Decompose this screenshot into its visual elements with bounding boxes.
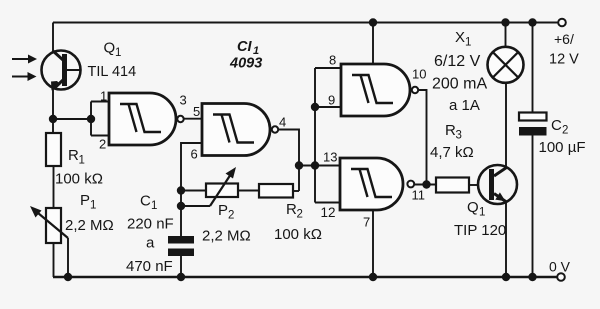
svg-text:13: 13	[323, 150, 337, 165]
svg-text:2,2 MΩ: 2,2 MΩ	[202, 228, 251, 245]
node riser pin13 link	[295, 161, 303, 169]
wire R3 to Q1 base	[469, 184, 479, 186]
svg-text:1: 1	[479, 207, 485, 219]
svg-text:R: R	[286, 201, 297, 218]
svg-text:X: X	[455, 29, 465, 46]
wire emitter to 0V rail	[505, 202, 507, 277]
svg-text:3: 3	[180, 93, 187, 108]
wire gate4 output to R3	[414, 184, 436, 186]
wire top supply rail	[53, 22, 558, 24]
node gate1 input bracket junction	[87, 115, 95, 123]
wire C1 to 0V rail	[180, 256, 182, 277]
svg-text:100 µF: 100 µF	[539, 139, 586, 156]
wire gate3 output down to gate4 output node	[418, 90, 426, 185]
capacitor C1	[168, 236, 194, 256]
node lamp on supply rail	[501, 18, 509, 26]
svg-text:P: P	[80, 192, 90, 209]
wire collector riser of Q1 TIL414	[52, 23, 54, 53]
wire gate1 output to gate2 pin5	[184, 118, 202, 120]
svg-text:9: 9	[328, 93, 335, 108]
svg-text:+6/: +6/	[554, 31, 574, 47]
wire gates3/4 input bus	[299, 68, 341, 203]
wire gate1 input bracket	[91, 102, 109, 136]
resistor R1	[46, 133, 61, 166]
node C2 on 0V rail	[528, 273, 536, 281]
node P2 top tap	[177, 186, 185, 194]
svg-text:C: C	[140, 193, 151, 210]
svg-text:1: 1	[90, 200, 96, 212]
node emitter junction	[49, 115, 57, 123]
resistor R3	[436, 178, 469, 193]
potentiometer P2	[206, 184, 238, 198]
wire gate2 output to R2/gate4	[278, 130, 299, 192]
svg-text:4,7 kΩ: 4,7 kΩ	[430, 144, 474, 161]
svg-text:7: 7	[363, 215, 370, 230]
node C2 on supply rail	[528, 18, 536, 26]
svg-text:220 nF: 220 nF	[127, 216, 174, 233]
terminal +supply	[558, 19, 566, 27]
wire R1 to P1	[53, 166, 55, 208]
wire pin7 VSS to 0V rail	[372, 210, 374, 277]
svg-text:Q: Q	[467, 199, 479, 216]
svg-text:R: R	[68, 147, 79, 164]
svg-text:2,2 MΩ: 2,2 MΩ	[65, 217, 114, 234]
svg-text:TIL 414: TIL 414	[88, 64, 137, 80]
wire C2 bottom to 0V rail	[532, 136, 534, 278]
svg-text:4093: 4093	[229, 56, 262, 72]
wire P1 bottom to 0V rail	[53, 243, 55, 277]
svg-text:6/12 V: 6/12 V	[434, 53, 481, 70]
svg-text:2: 2	[99, 137, 106, 152]
svg-text:1: 1	[100, 89, 107, 104]
wire P2 left lead	[181, 190, 206, 192]
potentiometer P1	[46, 208, 61, 243]
P2 wiper arrow	[210, 167, 236, 206]
svg-text:8: 8	[329, 53, 336, 68]
op-amp U1 gate G1 (4093 NAND a)	[109, 93, 184, 145]
lamp X1	[488, 47, 524, 83]
wire bottom 0V rail	[53, 276, 557, 278]
op-amp U1 gate G4 (4093 NAND d)	[340, 158, 414, 210]
wire emitter of Q1 down to node	[52, 89, 54, 134]
wire collector to lamp	[505, 83, 507, 168]
node outputs 10/11 join	[422, 180, 430, 188]
node P1 wiper on rail	[64, 273, 72, 281]
svg-text:1: 1	[115, 47, 121, 59]
svg-text:6: 6	[191, 147, 198, 162]
light arrow lower	[12, 72, 37, 81]
wire R2 right to riser	[293, 190, 299, 192]
wire P2 to R2	[238, 190, 259, 192]
wire pin14 VDD riser	[372, 23, 374, 65]
svg-text:200 mA: 200 mA	[432, 76, 487, 93]
svg-text:11: 11	[412, 188, 426, 203]
wire gate2 pin6 feedback down	[181, 143, 202, 236]
wire P1 wiper to 0V rail	[67, 238, 69, 277]
capacitor C2	[519, 113, 547, 136]
node pin7 on rail	[369, 273, 377, 281]
node bus pin13	[311, 161, 319, 169]
svg-text:2: 2	[228, 210, 234, 222]
node bus pin9	[311, 103, 319, 111]
svg-text:4: 4	[279, 115, 286, 130]
terminal 0V	[557, 273, 565, 281]
op-amp U1 gate G2 (4093 NAND b)	[202, 104, 278, 156]
resistor R2	[259, 184, 293, 198]
P1 wiper arrow	[30, 206, 68, 238]
svg-text:1: 1	[79, 155, 85, 167]
svg-text:100 kΩ: 100 kΩ	[55, 171, 103, 188]
wire lamp top to supply rail	[505, 23, 507, 48]
transistor Q1 TIL414	[42, 51, 81, 91]
wire C2 top to supply rail	[532, 23, 534, 113]
svg-text:P: P	[218, 202, 228, 219]
svg-text:470 nF: 470 nF	[126, 258, 173, 275]
svg-text:5: 5	[193, 104, 200, 119]
svg-text:12: 12	[321, 205, 336, 220]
node P2 wiper tap	[177, 202, 185, 210]
svg-text:12 V: 12 V	[549, 52, 579, 68]
svg-text:1: 1	[151, 200, 157, 212]
wire node to gate1 input bracket	[53, 118, 91, 120]
wire P2 wiper connection	[181, 205, 210, 207]
node pin14 on supply rail	[369, 18, 377, 26]
svg-text:CI: CI	[237, 39, 252, 55]
transistor Q1 TIP120	[478, 165, 517, 204]
svg-text:3: 3	[456, 130, 462, 142]
node emitter on rail	[502, 273, 510, 281]
svg-text:1: 1	[465, 37, 471, 49]
svg-text:C: C	[551, 117, 562, 134]
svg-text:R: R	[445, 122, 456, 139]
svg-text:100 kΩ: 100 kΩ	[274, 226, 322, 243]
svg-text:0 V: 0 V	[549, 259, 571, 275]
svg-text:10: 10	[412, 67, 426, 82]
op-amp U1 gate G3 (4093 NAND c)	[341, 64, 418, 116]
node C1 on rail	[177, 273, 185, 281]
svg-text:a: a	[146, 235, 155, 252]
svg-text:2: 2	[562, 125, 568, 137]
svg-text:TIP 120: TIP 120	[454, 222, 506, 239]
svg-text:Q: Q	[104, 40, 116, 57]
svg-text:a 1A: a 1A	[449, 97, 480, 114]
svg-text:2: 2	[297, 209, 303, 221]
light arrow upper	[12, 55, 37, 64]
